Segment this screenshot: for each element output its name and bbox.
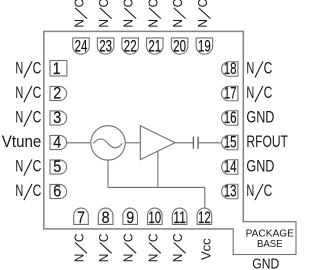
oscillator sine wave — [93, 139, 122, 148]
top label N/C pin19 — [196, 0, 211, 28]
pin 12 — [197, 208, 212, 224]
top label N/C pin23 — [97, 0, 112, 28]
wire amplifier to capacitor — [175, 142, 193, 144]
pin 16 — [222, 111, 238, 126]
svg-text:7: 7 — [77, 209, 85, 227]
pin 3 — [50, 111, 67, 125]
svg-text:2: 2 — [53, 85, 61, 103]
pin 14 — [222, 160, 238, 175]
pin 1 (square) — [50, 61, 67, 77]
pin 18 — [222, 62, 238, 77]
svg-text:Vcc: Vcc — [199, 238, 214, 260]
package base box (notched, overlaps package corner) — [233, 222, 296, 255]
left label N/C pin5 — [15, 157, 41, 176]
svg-text:GND: GND — [246, 108, 274, 127]
wire pin4 to oscillator — [67, 142, 91, 144]
pin 9 — [123, 208, 138, 224]
svg-text:11: 11 — [173, 209, 186, 227]
svg-text:24: 24 — [75, 38, 88, 56]
wire amplifier bottom down — [157, 151, 159, 188]
svg-text:23: 23 — [99, 38, 112, 56]
svg-text:14: 14 — [224, 158, 237, 176]
svg-text:21: 21 — [148, 38, 161, 56]
amplifier A1 triangle — [140, 126, 175, 160]
pin 21 — [147, 38, 164, 54]
svg-text:18: 18 — [224, 60, 237, 78]
oscillator G1 circle — [91, 126, 125, 160]
svg-text:RFOUT: RFOUT — [246, 132, 288, 151]
right label N/C pin13 — [246, 181, 272, 200]
bottom label N/C pin9 — [122, 233, 137, 262]
top label N/C pin22 — [122, 0, 137, 28]
pin 2 — [50, 86, 67, 100]
pin 24 — [73, 38, 90, 54]
svg-text:19: 19 — [198, 38, 211, 56]
svg-text:6: 6 — [53, 183, 61, 201]
capacitor C1 plate 2 — [197, 137, 199, 149]
top label N/C pin20 — [171, 0, 186, 28]
svg-text:GND: GND — [252, 255, 279, 270]
pin 5 — [50, 160, 67, 174]
svg-text:3: 3 — [53, 109, 61, 127]
svg-text:12: 12 — [198, 209, 211, 227]
svg-text:17: 17 — [224, 85, 237, 103]
wire capacitor to pin 15 RFOUT — [198, 142, 222, 144]
svg-text:16: 16 — [224, 109, 237, 127]
top label N/C pin21 — [146, 0, 161, 28]
svg-text:20: 20 — [173, 38, 186, 56]
wire bus horizontal to pin 12 — [108, 187, 205, 208]
pin 13 — [222, 184, 238, 199]
capacitor C1 plate 1 — [192, 137, 194, 149]
svg-text:22: 22 — [124, 38, 137, 56]
svg-text:9: 9 — [126, 209, 134, 227]
wire oscillator bottom down — [107, 160, 109, 187]
svg-text:10: 10 — [148, 209, 161, 227]
pin 10 — [148, 208, 163, 224]
wire oscillator to amplifier — [125, 142, 140, 144]
top label N/C pin24 — [73, 0, 88, 28]
pin 4 — [50, 135, 67, 149]
pin 15 — [222, 135, 238, 150]
left label N/C pin6 — [15, 181, 41, 200]
svg-text:4: 4 — [53, 134, 61, 152]
pin 8 — [98, 208, 113, 224]
package outline U1 (QFN-24 body) — [44, 31, 244, 229]
pin 20 — [171, 38, 188, 54]
svg-text:Vtune: Vtune — [2, 132, 42, 151]
right label N/C pin17 — [246, 83, 272, 102]
bottom label N/C pin7 — [73, 233, 88, 262]
pin 19 — [196, 38, 213, 54]
svg-text:5: 5 — [53, 158, 61, 176]
svg-text:GND: GND — [246, 157, 274, 176]
svg-text:15: 15 — [224, 134, 237, 152]
left label N/C pin3 — [15, 108, 41, 127]
left label N/C pin1 — [15, 59, 41, 78]
pin 17 — [222, 86, 238, 101]
svg-text:13: 13 — [224, 183, 237, 201]
svg-text:BASE: BASE — [257, 238, 283, 250]
svg-text:8: 8 — [102, 209, 110, 227]
bottom label N/C pin11 — [171, 233, 186, 262]
svg-text:1: 1 — [53, 60, 61, 78]
bottom label N/C pin8 — [97, 233, 112, 262]
pin 22 — [122, 38, 139, 54]
pin 11 — [172, 208, 187, 224]
right label N/C pin18 — [246, 59, 272, 78]
left label N/C pin2 — [15, 83, 41, 102]
pin 23 — [97, 38, 114, 54]
pin 6 — [50, 184, 67, 198]
pin 7 — [74, 208, 89, 224]
bottom label N/C pin10 — [146, 233, 161, 262]
